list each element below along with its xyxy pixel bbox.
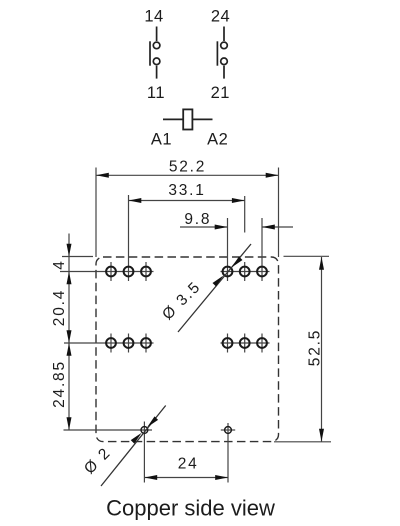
arrow right 33.1	[232, 198, 245, 203]
pad row3 left	[141, 427, 148, 434]
arrow up at row1 (dims 4 / 20.4)	[67, 272, 72, 285]
contact blade	[149, 41, 151, 65]
svg-text:11: 11	[147, 84, 165, 102]
svg-text:14: 14	[144, 8, 163, 26]
pad cross v row3 right / 24-dim extension	[227, 423, 229, 483]
pad cross v row2 x128.5	[128, 334, 130, 353]
pad row1 x146	[141, 267, 151, 277]
leader Ø2	[101, 406, 166, 487]
extension line pad col 128.5	[128, 195, 130, 281]
pad row1 x262	[257, 267, 267, 277]
svg-text:A1: A1	[151, 131, 172, 149]
pad row2 x128.5	[124, 338, 134, 348]
arrow up at row2 (dim 24.85)	[67, 343, 72, 356]
arrow down at body top (dim 4)	[67, 244, 72, 257]
row 2 pad centerline right	[221, 342, 270, 344]
arrow left 52.2	[96, 173, 109, 178]
pad cross v row2 x146	[145, 334, 147, 353]
svg-text:20.4: 20.4	[51, 289, 68, 326]
leader arrow upper Ø3.5	[232, 257, 243, 268]
leader arrow upper Ø2	[147, 416, 158, 427]
wire lead to 11	[156, 66, 158, 79]
arrow down 52.5	[319, 429, 324, 442]
dimension line 52.5	[321, 257, 323, 442]
arrow 9.8 pointing left	[262, 225, 275, 230]
contact terminal circle upper	[221, 42, 228, 49]
extension line left x96	[95, 168, 97, 258]
svg-text:24: 24	[178, 456, 199, 473]
extension line pad col 227.5	[227, 218, 229, 281]
svg-text:52.2: 52.2	[169, 159, 206, 176]
extension line right x278.5	[278, 168, 280, 258]
relay body outline (dashed, copper side)	[96, 257, 279, 442]
pad row2 x244.7	[240, 338, 250, 348]
arrow up 52.5	[319, 257, 324, 270]
svg-text:33.1: 33.1	[168, 182, 205, 199]
wire lead from 14	[156, 27, 158, 42]
pad row1 x128.5	[124, 267, 134, 277]
pad row1 x111	[106, 267, 116, 277]
pad row2 x111	[106, 338, 116, 348]
pad cross v row3 left / 24-dim extension	[143, 422, 145, 483]
dimension line 52.2	[96, 174, 279, 176]
pad row3 right	[225, 427, 232, 434]
leader arrow lower Ø3.5	[213, 276, 224, 287]
contact 14-11	[150, 27, 160, 79]
svg-text:24: 24	[211, 8, 230, 26]
arrow right 52.2	[266, 173, 279, 178]
pad cross v row1 x111	[110, 262, 112, 281]
arrow down at row2 (dim 20.4)	[67, 330, 72, 343]
arrow down at row3 (dim 24.85)	[67, 417, 72, 430]
tick body top edge	[62, 256, 93, 258]
contact 24-21	[217, 27, 227, 79]
coil body	[183, 109, 192, 129]
pad row2 x146	[141, 338, 151, 348]
row 1 pad centerline left	[60, 271, 154, 273]
svg-text:9.8: 9.8	[184, 211, 211, 228]
dimension 24	[144, 477, 228, 479]
dimension 52.2	[96, 168, 279, 258]
wire A2 side	[192, 118, 212, 120]
pad row1 x227.5	[223, 267, 233, 277]
dimension 9.8	[180, 226, 293, 228]
pad vertical crosses	[111, 262, 262, 483]
coil A1-A2	[163, 109, 213, 129]
row 3 pad centerline left	[64, 429, 153, 431]
left dimension chain line	[68, 234, 70, 431]
solder pads Ø2 row3	[141, 427, 231, 434]
wire A1 side	[163, 118, 183, 120]
wire lead to 21	[223, 66, 225, 79]
pad cross v row2 x111	[110, 334, 112, 353]
pad cross v row2 x262	[261, 334, 263, 353]
contact terminal circle lower	[221, 58, 228, 65]
svg-text:52.5: 52.5	[307, 329, 324, 366]
arrow left 33.1	[129, 198, 142, 203]
contact blade	[216, 41, 218, 65]
tick top 52.5	[284, 255, 330, 257]
row 3 pad cross right	[221, 429, 235, 431]
pad row1 x244.7	[240, 267, 250, 277]
svg-text:Copper side view: Copper side view	[106, 496, 275, 521]
contact terminal circle lower	[153, 58, 160, 65]
svg-text:21: 21	[211, 84, 230, 102]
wire lead from 24	[223, 27, 225, 42]
pad cross v row2 x227.5	[227, 334, 229, 353]
svg-text:24.85: 24.85	[51, 360, 68, 408]
solder pads Ø3.5 row1	[106, 267, 267, 348]
arrow 9.8 pointing right	[215, 225, 228, 230]
dimension 33.1	[129, 200, 245, 202]
row 2 pad centerline left	[64, 342, 154, 344]
pad cross v row2 x244.7	[244, 334, 246, 353]
leader Ø3.5	[178, 244, 251, 332]
contact terminal circle upper	[153, 42, 160, 49]
extension line pad col 244.7	[244, 196, 246, 233]
leader arrow lower Ø2	[131, 433, 142, 444]
row 1 pad centerline right	[221, 271, 270, 273]
svg-text:A2: A2	[207, 131, 228, 149]
pad cross v row1 x244.7	[244, 262, 246, 281]
svg-text:4: 4	[51, 259, 68, 269]
tick bottom 52.5	[274, 441, 331, 443]
pad row2 x227.5	[223, 338, 233, 348]
dimension 52.5	[274, 256, 331, 442]
pad row2 x262	[257, 338, 267, 348]
dim tail left 9.8	[180, 226, 228, 228]
extension line pad col 262	[261, 218, 263, 281]
dim tail right 9.8	[262, 226, 293, 228]
arrow left 24	[144, 475, 157, 480]
arrow right 24	[215, 475, 228, 480]
pad cross v row1 x146	[145, 262, 147, 281]
